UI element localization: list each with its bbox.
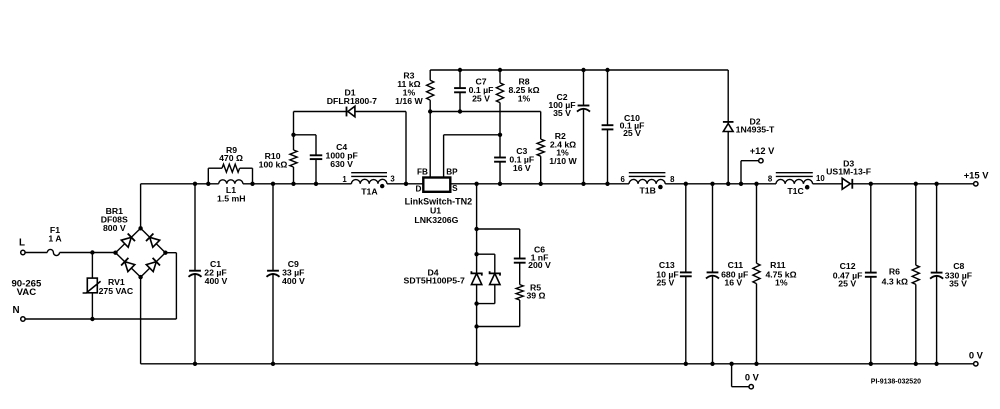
node C3 rail: [498, 182, 502, 186]
svg-text:8: 8: [768, 175, 773, 184]
node R5 bottom tap: [474, 324, 478, 328]
varistor RV1: [83, 253, 134, 320]
wire main rail T1C-D3 section: [813, 183, 853, 185]
node C10 top: [605, 68, 609, 72]
wire BR1 bottom to bottom rail: [140, 277, 142, 364]
node C10 rail: [605, 182, 609, 186]
svg-text:+12 V: +12 V: [750, 146, 775, 156]
resistor R8: [496, 70, 539, 135]
capacitor C9: [267, 184, 305, 364]
wire F1 to bridge: [60, 252, 116, 254]
terminal 0V middle: [745, 372, 760, 389]
label 90-265 VAC: [11, 278, 42, 298]
svg-text:35 V: 35 V: [553, 108, 571, 118]
transformer winding T1B: [621, 173, 676, 196]
svg-text:35 V: 35 V: [949, 279, 967, 289]
svg-text:D: D: [416, 184, 422, 193]
svg-text:L: L: [19, 237, 25, 248]
node C12 bottom: [869, 362, 873, 366]
svg-text:39 Ω: 39 Ω: [526, 291, 545, 301]
capacitor C4: [294, 135, 358, 184]
node BR1 right: [163, 251, 167, 255]
node C8 rail: [934, 182, 938, 186]
svg-text:1: 1: [342, 175, 347, 184]
node N-RV1: [90, 317, 94, 321]
capacitor C3: [494, 135, 534, 184]
bridge BR1 edge right-top: [141, 228, 166, 252]
node D1 rail: [404, 182, 408, 186]
node R10-C4 tap: [291, 133, 295, 137]
wire main rail L1-T1A section: [243, 183, 352, 185]
node D2 rail: [726, 182, 730, 186]
transformer winding T1C: [768, 173, 826, 196]
phase dot T1A: [380, 184, 384, 188]
phase dot T1C: [805, 185, 810, 190]
svg-text:1N4935-T: 1N4935-T: [736, 125, 775, 135]
resistor R2: [537, 131, 577, 184]
wire FB node line: [430, 112, 541, 140]
svg-text:6: 6: [621, 175, 626, 184]
node L1 right: [250, 182, 254, 186]
terminal N: [12, 305, 25, 321]
transient suppressor D4 first diode: [471, 271, 481, 284]
terminal +12V: [750, 146, 775, 163]
svg-text:0 V: 0 V: [969, 350, 984, 361]
wire D4b bottom branch: [477, 285, 495, 304]
resistor R11: [753, 184, 797, 364]
wire top rail: [430, 69, 728, 71]
node C12 rail: [869, 182, 873, 186]
node BR1 top: [138, 226, 142, 230]
node D4 branch tap: [474, 252, 478, 256]
svg-text:16 V: 16 V: [513, 163, 531, 173]
node C7 bottom: [458, 109, 462, 113]
svg-text:3: 3: [390, 175, 395, 184]
wire N input: [25, 318, 176, 320]
svg-text:100 kΩ: 100 kΩ: [259, 159, 288, 169]
transient suppressor D4 second diode: [490, 271, 500, 284]
wire L input: [25, 252, 47, 254]
node BR1 left: [113, 251, 117, 255]
svg-text:25 V: 25 V: [656, 278, 674, 288]
node C2 top: [581, 68, 585, 72]
wire C6 top: [477, 228, 520, 230]
node C13 bottom: [684, 362, 688, 366]
svg-text:400 V: 400 V: [282, 276, 305, 286]
svg-text:16 V: 16 V: [724, 278, 742, 288]
phase dot T1B: [658, 185, 663, 190]
wire S node down: [476, 184, 478, 274]
node C11 bottom: [710, 362, 714, 366]
svg-text:275 VAC: 275 VAC: [99, 286, 134, 296]
svg-text:1%: 1%: [775, 278, 788, 288]
wire main rail D3 to +15V: [853, 183, 974, 185]
wire U1 BP pin: [444, 135, 500, 178]
svg-text:1/16 W: 1/16 W: [395, 96, 423, 106]
resistor R5: [516, 283, 545, 327]
fuse F1: [47, 225, 62, 255]
bridge BR1 edge bottom-left: [116, 253, 141, 277]
node C9 bottom: [271, 362, 275, 366]
svg-text:U1: U1: [430, 206, 441, 216]
node L-RV1: [90, 250, 94, 254]
svg-text:4.3 kΩ: 4.3 kΩ: [882, 276, 908, 286]
node D4 bottom rail: [474, 362, 478, 366]
node D4 top tap: [474, 227, 478, 231]
wire +12V tap: [741, 161, 759, 184]
bridge BR1 edge bottom-right: [141, 253, 166, 277]
svg-text:25 V: 25 V: [472, 94, 490, 104]
svg-text:8: 8: [670, 175, 675, 184]
wire main rail T1B-T1C section: [665, 183, 776, 185]
node C4 rail: [314, 182, 318, 186]
node R11 bottom: [754, 362, 758, 366]
wire U1 FB pin: [429, 112, 431, 178]
node R8-BP: [498, 133, 502, 137]
wire BR1 top to rail: [140, 184, 142, 229]
diode D2: [723, 70, 775, 184]
node R6 bottom: [914, 362, 918, 366]
capacitor C10: [602, 70, 645, 184]
node C2 rail: [581, 182, 585, 186]
svg-text:T1C: T1C: [787, 186, 804, 196]
svg-text:200 V: 200 V: [528, 260, 551, 270]
svg-text:LNK3206G: LNK3206G: [414, 215, 458, 225]
svg-text:US1M-13-F: US1M-13-F: [826, 166, 871, 176]
capacitor C8: [930, 184, 972, 364]
svg-text:R6: R6: [889, 267, 900, 277]
node +12V tap: [739, 182, 743, 186]
wire bottom rail: [141, 363, 974, 365]
label D4: [404, 268, 465, 286]
drawing number: [871, 379, 921, 386]
capacitor C6: [514, 229, 551, 285]
diode D1: [294, 88, 407, 184]
wire R5 bottom: [477, 326, 520, 328]
capacitor C11: [706, 184, 748, 364]
svg-text:800 V: 800 V: [103, 223, 126, 233]
svg-text:FB: FB: [417, 168, 428, 177]
node R10 rail: [291, 182, 295, 186]
svg-text:T1A: T1A: [361, 187, 378, 197]
node R11 rail: [754, 182, 758, 186]
wire main rail T1A-U1 section: [387, 183, 423, 185]
wire D4b top branch: [477, 254, 495, 273]
node C1 bottom: [193, 362, 197, 366]
terminal L: [19, 237, 25, 254]
node R6 rail: [914, 182, 918, 186]
resistor R9: [208, 145, 252, 184]
svg-text:1.5 mH: 1.5 mH: [217, 194, 246, 204]
node R8 top: [498, 68, 502, 72]
resistor R3: [395, 70, 434, 112]
svg-text:630 V: 630 V: [330, 159, 353, 169]
node C11 rail: [710, 182, 714, 186]
node C13 rail: [684, 182, 688, 186]
node C8 bottom: [934, 362, 938, 366]
svg-text:470 Ω: 470 Ω: [219, 153, 243, 163]
terminal 0V right: [969, 350, 984, 366]
svg-text:C8: C8: [953, 261, 964, 271]
svg-text:C12: C12: [840, 261, 856, 271]
diode D3: [826, 159, 871, 190]
svg-text:T1B: T1B: [639, 186, 655, 196]
svg-text:PI-9138-032520: PI-9138-032520: [871, 379, 921, 386]
node C1 rail: [193, 182, 197, 186]
wire BR1 right to N: [165, 253, 176, 319]
svg-text:400 V: 400 V: [205, 276, 228, 286]
svg-text:1/10 W: 1/10 W: [549, 156, 577, 166]
node R2 rail: [539, 182, 543, 186]
svg-text:VAC: VAC: [17, 287, 37, 298]
transformer winding T1A: [342, 173, 395, 197]
svg-text:1%: 1%: [518, 94, 531, 104]
svg-text:10: 10: [816, 174, 825, 183]
node C7 top: [458, 68, 462, 72]
terminal +15V: [964, 170, 990, 186]
capacitor C1: [189, 184, 228, 364]
svg-text:SDT5H100P5-7: SDT5H100P5-7: [404, 275, 465, 285]
node S rail: [474, 182, 478, 186]
node BR1 bottom: [138, 275, 142, 279]
resistor R6: [882, 184, 920, 364]
node L1 left: [206, 182, 210, 186]
svg-text:1 A: 1 A: [48, 233, 62, 243]
op-amp U1 LinkSwitch-TN2 box: [405, 168, 473, 226]
svg-text:25 V: 25 V: [838, 279, 856, 289]
svg-text:DFLR1800-7: DFLR1800-7: [327, 96, 377, 106]
node C9 rail: [271, 182, 275, 186]
capacitor C12: [833, 184, 877, 364]
svg-text:S: S: [452, 184, 458, 193]
inductor L1: [217, 180, 246, 204]
wire 0V tap: [732, 364, 749, 387]
svg-text:25 V: 25 V: [623, 128, 641, 138]
resistor R10: [259, 112, 297, 184]
node R3 FB: [428, 109, 432, 113]
wire main rail U1-T1B section: [450, 183, 629, 185]
capacitor C7: [454, 70, 493, 112]
wire main rail left section: [141, 183, 219, 185]
wire D4 below: [476, 285, 478, 364]
svg-text:0 V: 0 V: [745, 372, 760, 382]
bridge rectifier BR1 labels: [101, 206, 128, 233]
svg-text:N: N: [12, 305, 19, 316]
svg-text:BP: BP: [446, 168, 458, 177]
node 0V tap: [729, 362, 733, 366]
svg-text:+15 V: +15 V: [964, 170, 990, 181]
capacitor C2: [548, 70, 590, 184]
bridge BR1 edge left-top: [116, 228, 141, 252]
capacitor C13: [656, 184, 691, 364]
node D4b bottom: [474, 301, 478, 305]
